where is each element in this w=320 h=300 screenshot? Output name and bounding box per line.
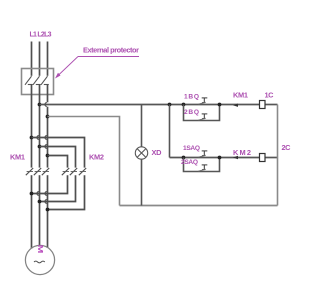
node crossover tap L3 xyxy=(46,154,50,158)
node branch row2 feed xyxy=(168,103,172,107)
KM1 contact pole 1 xyxy=(26,168,33,175)
hop return1 over L2 xyxy=(37,192,39,196)
hop crossover1 over L3 xyxy=(45,136,47,140)
node crossover tap L2 xyxy=(38,145,42,149)
wire control bottom rail xyxy=(120,205,278,207)
svg-text:KM2: KM2 xyxy=(233,148,251,157)
svg-text:2C: 2C xyxy=(282,143,292,152)
wire KM2 right return xyxy=(48,175,85,209)
svg-text:M: M xyxy=(36,245,44,254)
wire tap L3 to bottom rail xyxy=(48,117,120,206)
svg-text:KM2: KM2 xyxy=(89,153,104,162)
node return L1 xyxy=(30,192,34,196)
wire L2 lower drop to motor xyxy=(39,175,41,245)
svg-text:2SAQ: 2SAQ xyxy=(181,159,198,166)
node return L3 xyxy=(46,208,50,212)
motor M circle xyxy=(25,245,54,274)
KM2 contact pole 1 xyxy=(62,168,69,175)
motor wave symbol xyxy=(34,261,45,263)
hop return2 over L3 xyxy=(45,200,47,204)
hop crossover1 over L2 xyxy=(37,136,39,140)
node crossover tap L1 xyxy=(30,136,34,140)
wire KM2 mid return xyxy=(40,175,76,201)
KM1 contact pole 2 xyxy=(34,168,41,175)
switch 2SAQ button xyxy=(198,165,207,171)
wire L3 top drop xyxy=(47,42,49,76)
node row2 branch rejoin xyxy=(218,156,222,160)
wire control top rail xyxy=(40,104,260,106)
wire L1 main drop xyxy=(31,85,33,168)
svg-text:2BQ: 2BQ xyxy=(184,109,199,116)
wire row2 lower branch xyxy=(184,158,220,172)
wire L2 top drop xyxy=(39,42,41,76)
breaker pole 3 xyxy=(41,76,49,85)
switch 1SAQ button xyxy=(198,151,207,157)
wire crossover L2 to KM2 mid xyxy=(40,147,76,168)
svg-text:1BQ: 1BQ xyxy=(184,94,199,101)
wire L1 lower drop to motor xyxy=(31,175,33,248)
hop crossover2 over L3 xyxy=(45,145,47,149)
wire L1 top drop xyxy=(31,42,33,76)
leader arrow to breaker box xyxy=(57,57,139,77)
wire L3 main drop (hop gap at control tap) xyxy=(47,85,49,103)
wire crossover L3 to KM2 left xyxy=(48,156,68,168)
KM2 contact pole 2 xyxy=(70,168,77,175)
svg-text:XD: XD xyxy=(152,148,163,157)
contact KM2 arrow xyxy=(233,156,238,159)
contact KM1 arrow xyxy=(233,104,238,107)
hop return1 over L3 xyxy=(45,192,47,196)
svg-text:KM1: KM1 xyxy=(233,91,248,100)
node tap L2 control xyxy=(38,103,42,107)
wire lamp to bottom rail xyxy=(141,159,143,205)
lamp XD drop wire xyxy=(141,105,143,148)
wire row1 lower branch xyxy=(184,105,220,121)
svg-text:1SAQ: 1SAQ xyxy=(183,145,200,152)
wire row2 rail xyxy=(170,157,260,159)
wire right bus xyxy=(277,105,279,206)
coil 2C xyxy=(260,154,266,162)
wire L2 main drop xyxy=(39,85,41,168)
node row1 branch rejoin xyxy=(218,103,222,107)
node return L2 xyxy=(38,200,42,204)
breaker box (External protector) xyxy=(22,69,54,95)
breaker pole 2 xyxy=(33,76,41,85)
lamp XD symbol xyxy=(135,147,147,159)
svg-text:External protector: External protector xyxy=(83,46,139,55)
node tap L3 control xyxy=(46,115,50,119)
node row1 branch split xyxy=(182,103,186,107)
wire L3 lower drop to motor xyxy=(47,175,49,247)
svg-text:KM1: KM1 xyxy=(10,153,25,162)
svg-text:L1 L2L3: L1 L2L3 xyxy=(30,32,52,39)
hop rail over L3 xyxy=(45,103,47,107)
wire KM2 left return xyxy=(32,175,68,193)
breaker pole 1 xyxy=(25,76,33,85)
wire crossover L1 to KM2 right xyxy=(32,138,85,168)
wire branch feed down to row2 xyxy=(169,105,171,158)
coil 1C xyxy=(260,101,266,109)
switch 2BQ button xyxy=(198,114,207,120)
node row2 branch split xyxy=(182,156,186,160)
switch 1BQ button xyxy=(198,98,207,104)
KM2 contact pole 3 xyxy=(79,168,86,175)
KM1 contact pole 3 xyxy=(42,168,49,175)
svg-text:1C: 1C xyxy=(265,91,275,100)
